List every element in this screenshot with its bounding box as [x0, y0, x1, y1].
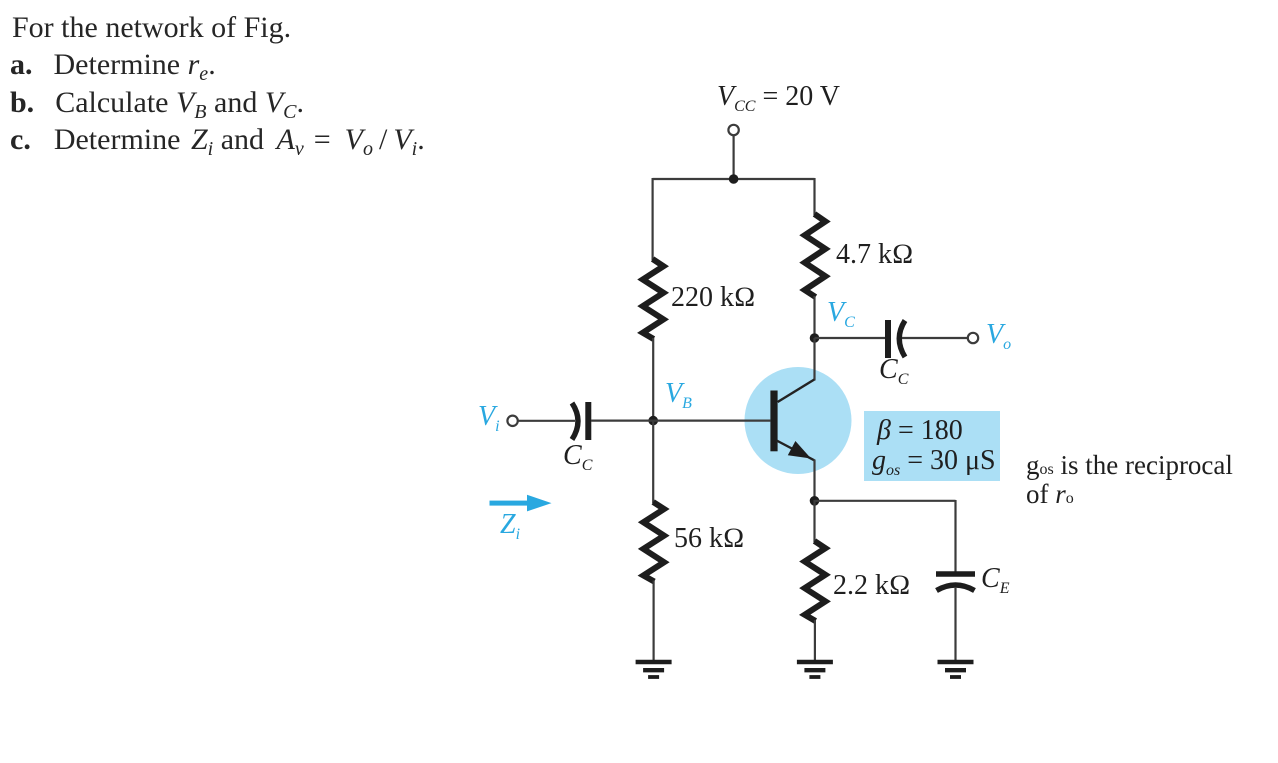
top rail wire	[653, 178, 815, 180]
R2 label 56k	[674, 525, 745, 553]
wire CE branch down	[954, 500, 956, 572]
VC node label	[827, 299, 855, 337]
transistor Q1 base bar	[770, 391, 777, 452]
transistor Q1 emitter lead	[777, 441, 815, 461]
Vcc label	[717, 83, 840, 121]
note line 1	[1026, 452, 1233, 483]
wire VB node to R2	[652, 420, 654, 503]
ground symbol under RE	[797, 662, 833, 677]
Zi arrow	[490, 495, 552, 512]
transistor Q1 emitter arrowhead	[788, 441, 811, 459]
resistor RE 2.2k zigzag	[805, 541, 826, 621]
junction dot top rail	[729, 174, 739, 184]
problem statement line 1	[12, 13, 291, 43]
beta value text	[877, 417, 963, 445]
wire emitter to E node	[813, 460, 815, 503]
wire Cc2 to Vo terminal	[902, 337, 967, 339]
node VC dot	[810, 333, 820, 343]
Vcc terminal	[728, 125, 738, 135]
RE label 2.2k	[833, 572, 911, 600]
transistor Q1 highlight circle	[745, 367, 852, 474]
capacitor Cc1 curved plate	[572, 403, 578, 440]
capacitor Cc2 straight plate	[885, 320, 891, 358]
capacitor CE top plate	[936, 571, 975, 577]
wire rail to RC	[813, 178, 815, 215]
wire RC to VC node	[813, 296, 815, 339]
gos value text	[872, 447, 996, 485]
wire CE to ground	[954, 587, 956, 660]
ground symbol under R2	[636, 662, 672, 677]
beta/gos parameter box	[864, 411, 1000, 481]
output terminal Vo	[968, 333, 978, 343]
problem statement line b	[10, 88, 304, 127]
resistor RC 4.7k zigzag	[805, 214, 826, 297]
wire E node to CE branch	[815, 500, 956, 502]
transistor Q1 collector lead	[778, 380, 815, 403]
Vi label	[478, 403, 500, 441]
Cc1 label	[563, 442, 592, 480]
Zi label	[500, 511, 520, 549]
capacitor CE curved bottom plate	[937, 585, 975, 591]
ground symbol under CE	[938, 662, 974, 677]
input terminal Vi	[507, 416, 517, 426]
problem statement line a	[10, 50, 216, 89]
problem statement line c	[10, 125, 425, 164]
wire RE to ground	[814, 620, 816, 660]
wire R2 to ground	[652, 581, 654, 661]
resistor R2 56k zigzag	[643, 502, 664, 582]
node VB dot	[648, 416, 658, 426]
wire rail to R1	[651, 178, 653, 260]
capacitor Cc1 straight plate	[585, 402, 591, 440]
resistor R1 220k zigzag	[643, 259, 664, 339]
CE label	[981, 565, 1009, 603]
R1 label 220k	[671, 284, 756, 312]
node E dot	[810, 496, 820, 506]
capacitor Cc2 curved plate	[899, 321, 905, 358]
Cc2 label	[879, 356, 908, 394]
wire R1 to VB node	[652, 338, 654, 421]
wire E node to RE	[813, 500, 815, 542]
wire Cc1 to VB node	[591, 420, 653, 422]
wire VC node to collector	[813, 338, 815, 381]
wire Vcc terminal to top rail	[732, 135, 734, 179]
wire base from VB node	[653, 420, 770, 422]
note line 2	[1026, 481, 1074, 512]
Vo label	[986, 321, 1011, 359]
wire Vi terminal to Cc1	[518, 420, 575, 422]
wire VC node to Cc2	[815, 337, 887, 339]
VB node label	[665, 380, 692, 418]
RC label 4.7k	[836, 241, 914, 269]
